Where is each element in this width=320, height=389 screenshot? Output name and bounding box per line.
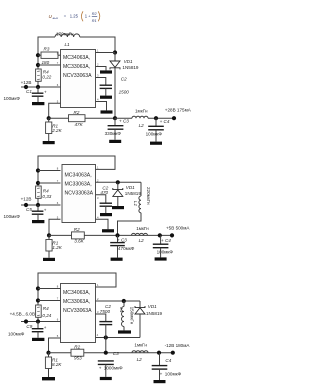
svg-text:+ C3: + C3 [117, 237, 127, 242]
svg-text:R4: R4 [43, 188, 49, 193]
svg-text:L1: L1 [133, 201, 138, 207]
svg-text:47K: 47K [75, 122, 84, 127]
capacitor C3 (330uF) [114, 118, 116, 126]
ground under C5 [32, 220, 44, 223]
svg-text:470: 470 [100, 190, 108, 195]
node pin7 tap [36, 298, 40, 302]
wire output/feedback [49, 234, 172, 236]
svg-text:MC34063A,: MC34063A, [63, 290, 90, 296]
svg-text:+5В 500мА: +5В 500мА [166, 226, 190, 231]
svg-text:100мкФ: 100мкФ [146, 131, 163, 136]
resistor R2 (47K) [69, 115, 86, 122]
node C4 tap [154, 116, 158, 120]
svg-text:+: + [44, 207, 47, 212]
ground under C3 (block3) [100, 377, 112, 380]
svg-text:+12В: +12В [21, 196, 32, 201]
svg-text:1500: 1500 [119, 90, 130, 95]
capacitor C2 (470) [100, 202, 112, 204]
svg-text:вых: вых [53, 16, 59, 20]
inductor L1 (block2) [140, 182, 142, 196]
diode VD1 (block3) [139, 301, 141, 308]
wire negative rail pin4 [96, 337, 141, 339]
wire input [21, 204, 61, 206]
node switch (block2) [116, 180, 120, 184]
svg-text:100мкФ: 100мкФ [8, 331, 25, 336]
ground under C3 [109, 140, 121, 143]
ground at pin 4 [101, 110, 113, 113]
ground at pin 2 [100, 70, 112, 73]
resistor R4 (0.24) [36, 305, 42, 317]
svg-text:C2: C2 [121, 76, 127, 81]
ground under VD1 [112, 206, 124, 209]
svg-text:180: 180 [42, 60, 50, 65]
pin 3 wire [96, 78, 106, 86]
wire top rail [38, 156, 115, 205]
node L1 bottom / C3 tap [115, 233, 119, 237]
node switch (block1) [113, 50, 117, 54]
pin 3 wire (block3) [96, 314, 106, 322]
node rail/C9 junction [36, 319, 40, 323]
node feedback (block2) [47, 233, 51, 237]
svg-text:R1: R1 [92, 19, 97, 23]
svg-text:VD1: VD1 [126, 185, 135, 190]
svg-text:+: + [44, 89, 47, 94]
svg-text:0,24: 0,24 [42, 313, 51, 318]
svg-text:+28В 175мА: +28В 175мА [165, 108, 192, 113]
svg-text:R2: R2 [74, 344, 80, 349]
svg-text:MC34063A,: MC34063A, [63, 55, 90, 61]
node output rail [113, 116, 117, 120]
op-amp U1 IC MC34063A box (block3) [61, 284, 96, 343]
capacitor C4 (block3) [159, 353, 161, 366]
svg-text:L1: L1 [119, 307, 124, 313]
svg-text:L1: L1 [65, 42, 71, 47]
svg-text:+ C4: + C4 [160, 119, 170, 124]
wire top rail [38, 273, 116, 322]
node rail/C5 junction [36, 203, 40, 207]
inductor L1 (block3) [123, 301, 125, 307]
node rail/C1 junction [36, 85, 40, 89]
wire pin1 to switch node [96, 52, 116, 54]
svg-text:NCV33063A: NCV33063A [63, 73, 92, 79]
svg-text:330мкФ: 330мкФ [105, 131, 122, 136]
resistor R1 (8.2K) [48, 353, 50, 357]
pin 4 wire to ground (block2) [96, 219, 109, 229]
svg-text:+: + [160, 371, 163, 376]
svg-text:1N5819: 1N5819 [146, 311, 163, 316]
svg-text:MC33063A,: MC33063A, [65, 182, 92, 188]
svg-text:1.25: 1.25 [70, 14, 79, 19]
diode VD1 (block2) [117, 182, 119, 189]
ground under C4 (block2) [155, 257, 167, 260]
node switch (block3) [122, 299, 126, 303]
svg-text:C1: C1 [26, 89, 32, 94]
wire L2 to output [148, 117, 174, 119]
svg-text:L2: L2 [139, 238, 145, 243]
wire top rail [38, 37, 55, 87]
capacitor C4 (100uF) [155, 118, 157, 126]
ground under C2 (block2) [100, 213, 112, 216]
wire output/feedback (block3) [49, 352, 173, 354]
node input terminal [24, 85, 28, 89]
ground at pin 4 (block2) [102, 229, 114, 232]
node C4 tap (block3) [157, 351, 161, 355]
svg-text:+12В: +12В [21, 80, 32, 85]
svg-text:220мкГн: 220мкГн [146, 187, 151, 205]
wire to pin 7 [38, 182, 61, 184]
wire node to pin 7 [36, 63, 40, 67]
svg-text:100мкФ: 100мкФ [4, 214, 21, 219]
svg-text:L2: L2 [139, 123, 145, 128]
svg-text:+4.5В...6.0В: +4.5В...6.0В [10, 312, 35, 317]
pin 4 wire to ground [96, 102, 107, 111]
svg-text:100мкФ: 100мкФ [157, 250, 174, 255]
svg-text:953: 953 [74, 356, 82, 361]
svg-text:-12В 180мА: -12В 180мА [165, 343, 191, 348]
inductor L2 [132, 116, 148, 118]
node feedback (block3) [46, 351, 50, 355]
inductor L1 [55, 34, 80, 37]
pin 2 wire to switch node (block3) [96, 300, 141, 302]
resistor R1 (2.2K) [48, 118, 50, 122]
wire to pin 8 [38, 170, 61, 172]
node output terminal (block3) [171, 351, 175, 355]
svg-text:7500: 7500 [100, 309, 111, 314]
svg-text:L2: L2 [137, 357, 143, 362]
svg-text:100мкФ: 100мкФ [4, 96, 21, 101]
op-amp U1 IC MC34063A box [61, 50, 96, 108]
pin 5 wire (block3) [49, 338, 61, 353]
node C3 tap (block3) [104, 351, 108, 355]
svg-text:+ C4: + C4 [161, 238, 171, 243]
ground under C1 [32, 102, 44, 105]
ground under C4 [150, 142, 162, 145]
capacitor C5 [37, 205, 39, 211]
pin 2 wire to ground [96, 67, 107, 71]
formula Uout = 1.25(1+R2/R1) [49, 11, 100, 22]
node input terminal [24, 319, 28, 323]
svg-text:R4: R4 [43, 306, 49, 311]
node output terminal [172, 116, 176, 120]
svg-text:0,33: 0,33 [42, 194, 51, 199]
capacitor C3 (1000uF) [98, 360, 114, 362]
pin 3 wire (block2) [96, 195, 106, 203]
capacitor C4 (block2) [160, 235, 162, 244]
svg-text:C9: C9 [26, 324, 32, 329]
inductor L2 (block2) [132, 233, 148, 235]
wire feedback [49, 117, 115, 119]
resistor R1 (1.2K) [48, 235, 50, 239]
resistor R3 [36, 53, 40, 57]
svg-text:1N5819: 1N5819 [122, 65, 139, 70]
svg-text:NCV33063A: NCV33063A [63, 308, 92, 314]
svg-text:R3: R3 [44, 46, 50, 51]
ground under R1 (block2) [43, 258, 55, 261]
ground under R1 (block3) [42, 377, 55, 380]
svg-text:470мкФ: 470мкФ [118, 246, 135, 251]
capacitor C1 [37, 87, 39, 93]
node neg rail / C2 lead [104, 335, 108, 339]
svg-text:+: + [99, 365, 102, 370]
svg-text:VD1: VD1 [148, 304, 157, 309]
svg-text:1N5819: 1N5819 [125, 191, 142, 196]
capacitor C3 (470uF) [117, 235, 119, 242]
svg-text:2.2K: 2.2K [51, 128, 62, 133]
node C4 tap (block2) [158, 233, 162, 237]
wire from L1 to switch node [80, 37, 115, 53]
svg-text:1.2K: 1.2K [52, 245, 62, 250]
svg-text:R2: R2 [74, 110, 80, 115]
svg-text:3.6K: 3.6K [74, 238, 84, 243]
svg-text:MC33063A,: MC33063A, [63, 64, 90, 70]
node input terminal [24, 203, 28, 207]
svg-text:R2: R2 [74, 227, 80, 232]
capacitor C2 (7500) [99, 321, 112, 323]
ground under L1 (block3) [118, 330, 131, 333]
svg-text:MC34063A,: MC34063A, [65, 173, 92, 179]
ground under R1 [43, 141, 55, 144]
ground under C9 [32, 338, 44, 341]
svg-text:+ C3: + C3 [119, 119, 129, 124]
svg-text:C3: C3 [113, 351, 119, 356]
wire to L2 [115, 117, 132, 119]
resistor R4 (0.22) [36, 69, 42, 81]
wire to pin 7 [38, 300, 61, 302]
svg-text:170мкГн: 170мкГн [56, 32, 74, 37]
svg-text:150мкГн: 150мкГн [129, 307, 134, 325]
op-amp U1 IC MC34063A box (block2) [62, 165, 96, 223]
svg-text:NCV33063A: NCV33063A [65, 191, 94, 197]
svg-text:+: + [44, 325, 47, 330]
ground under C2 [100, 96, 112, 99]
node output terminal (block2) [170, 233, 174, 237]
resistor R2 (3.6K) [72, 232, 85, 239]
inductor L2 (block3) [132, 351, 148, 353]
resistor R4 (0.33) [36, 186, 42, 198]
node pin7 [36, 181, 40, 185]
ground under C3 (block2) [111, 258, 123, 261]
capacitor C9 [37, 322, 39, 329]
node pin7 tap [36, 168, 40, 172]
svg-text:8.2K: 8.2K [52, 362, 62, 367]
wire input [21, 321, 61, 323]
pin 5 wire (block2) [49, 219, 61, 235]
wire input [21, 86, 61, 88]
node pin8 tap [36, 286, 40, 290]
svg-text:1мкГн: 1мкГн [135, 108, 148, 113]
node feedback [47, 116, 51, 120]
wire to pin 8 [38, 288, 61, 290]
svg-text:C4: C4 [165, 358, 171, 363]
pin 2 wire to switch node [96, 181, 142, 183]
svg-text:MC33063A,: MC33063A, [63, 299, 90, 305]
capacitor C2 (1500) [100, 84, 112, 86]
pin 5 wire [49, 103, 61, 118]
svg-text:1мкГн: 1мкГн [136, 226, 149, 231]
svg-text:1мкГн: 1мкГн [134, 343, 147, 348]
svg-text:C5: C5 [26, 207, 32, 212]
svg-text:1000мкФ: 1000мкФ [104, 365, 123, 370]
diode VD1 [114, 53, 116, 62]
svg-text:100мкФ: 100мкФ [165, 371, 182, 376]
resistor R2 (953) [71, 349, 84, 356]
svg-text:0,22: 0,22 [42, 74, 51, 79]
ground under C4 (block3) [154, 380, 166, 383]
svg-text:VD1: VD1 [124, 59, 133, 64]
